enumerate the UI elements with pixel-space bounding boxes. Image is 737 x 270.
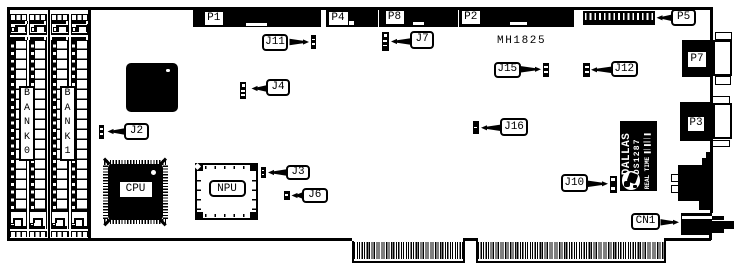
power connector step bottom: [699, 201, 710, 210]
callout J3: [286, 165, 310, 180]
board outline: bottom edge left span: [7, 238, 352, 241]
callout J6: [302, 188, 328, 204]
connector P7 top tab: [715, 32, 733, 40]
connector P1: [193, 7, 321, 27]
callout J15: [494, 62, 521, 78]
callout J2: [124, 123, 149, 140]
SIMM socket slot 2: [29, 14, 47, 238]
connector P3 D-sub shell: [713, 103, 732, 139]
label BANK1: [60, 86, 76, 161]
board outline: bottom edge notch span: [463, 238, 478, 241]
connector P7 body: [682, 40, 713, 78]
CPU pins top: [104, 160, 166, 165]
connector P7 D-sub shell: [713, 40, 733, 77]
callout J11: [262, 34, 288, 51]
jumper J4: [240, 82, 246, 99]
callout J16: [500, 118, 528, 136]
jumper J10: [610, 176, 617, 193]
jumper J16: [473, 121, 479, 134]
keyboard connector CN1 barrel: [712, 216, 725, 233]
power connector pin square 1: [671, 174, 679, 182]
SIMM area right separator line B: [88, 9, 91, 238]
text MH1825: [497, 35, 546, 47]
CPU pins left: [103, 165, 108, 219]
board outline: left edge: [7, 7, 10, 241]
label CPU: [120, 182, 152, 198]
callout J10: [561, 174, 588, 192]
CPU corner pins: [103, 158, 110, 165]
callout J7: [410, 31, 434, 49]
callout J4: [266, 79, 290, 96]
NPU socket: [195, 163, 258, 220]
connector P3 top tab: [712, 96, 730, 104]
DALLAS logo globe: [622, 171, 640, 190]
jumper J15: [543, 63, 550, 77]
connector P3 body: [680, 102, 710, 141]
jumper J11: [311, 35, 317, 49]
CPU body U?: [108, 164, 164, 220]
board outline: right bracket edge: [710, 7, 713, 213]
jumper J7: [382, 32, 389, 51]
ISA edge connector group 1: [352, 241, 465, 264]
SIMM socket slot 4: [71, 14, 89, 238]
CPU pins right: [163, 165, 168, 219]
connector P3 bottom tab: [712, 140, 730, 147]
CPU pins bottom: [104, 219, 166, 224]
jumper J6: [284, 191, 290, 201]
label BANK0: [19, 86, 35, 161]
board outline: bottom edge right span: [664, 238, 710, 241]
SIMM socket slot 1: [10, 14, 28, 238]
board outline: top edge: [7, 7, 712, 10]
board outline: right lower edge piece: [709, 233, 712, 241]
label NPU: [209, 180, 246, 197]
IC chip (square, top middle-left): [126, 63, 178, 112]
jumper J12: [583, 63, 590, 77]
connector P4: [326, 7, 378, 27]
power connector step top: [702, 158, 710, 165]
connector P7 bottom tab: [715, 76, 732, 85]
wire CN1 to board bottom: [711, 235, 712, 240]
RTC chip DALLAS DS1287: [620, 121, 657, 191]
callout CN1: [631, 213, 660, 230]
connector P8: [379, 7, 458, 27]
SIMM socket slot 3: [51, 14, 69, 238]
callout J12: [611, 61, 639, 77]
pin header for P5: [583, 11, 656, 25]
SIMM bank separator line A: [48, 9, 51, 238]
power connector pin square 2: [671, 185, 679, 193]
connector P2: [459, 7, 574, 27]
jumper J2: [99, 125, 104, 139]
power connector body: [678, 165, 710, 202]
callout P5: [671, 9, 696, 26]
keyboard connector CN1 body: [681, 213, 712, 235]
jumper J3: [261, 167, 266, 178]
ISA edge connector group 2: [476, 241, 666, 264]
